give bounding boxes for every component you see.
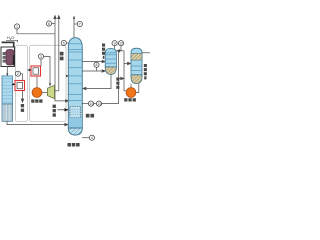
line out right (142, 52, 150, 54)
主冷凝 label blobs + arrow (53, 105, 56, 117)
污氮 label blobs (21, 104, 24, 112)
svg-text:1: 1 (16, 25, 18, 29)
adsorber vessel (6, 50, 14, 66)
expander trapezoid (48, 85, 55, 98)
分馏塔 label blobs (68, 143, 80, 147)
liquid air pump (126, 88, 136, 98)
node 2 circle (15, 71, 22, 80)
gray unit box main (cold box) (30, 45, 67, 121)
regenerator column (left) (2, 76, 13, 121)
node 1 circle (14, 24, 19, 29)
line from box to regenerator top (6, 67, 8, 74)
svg-text:4: 4 (91, 136, 93, 140)
svg-text:10: 10 (119, 42, 123, 46)
粗氩塔II label blobs (144, 64, 147, 79)
svg-text:13: 13 (97, 102, 101, 106)
main condenser dashed box (70, 107, 81, 118)
液空泵 label blobs (124, 98, 136, 101)
svg-text:3: 3 (40, 55, 42, 59)
up arrows lines (products) (54, 16, 69, 103)
回流液 label blobs (116, 78, 119, 89)
crude argon column I (105, 48, 116, 74)
svg-text:14: 14 (89, 102, 93, 106)
膨胀机 label blobs (31, 99, 42, 102)
node 10 + wires (118, 41, 123, 46)
nodes 14 13 line (82, 103, 88, 105)
node 5 circle (61, 40, 69, 45)
下塔 label blobs (86, 114, 94, 118)
purifier label blobs (3, 52, 6, 63)
node 8 wires to crude argon col 1 (82, 60, 105, 72)
feed arrow inside box (13, 55, 15, 63)
粗氩塔I label blobs (102, 44, 105, 59)
svg-text:5: 5 (63, 41, 65, 45)
上塔 label blobs (60, 52, 64, 61)
heat exchanger C (upper red box) (28, 66, 41, 76)
wire from node1 to product line (17, 29, 55, 34)
thick feed line (2, 42, 14, 50)
node 6 circle (46, 21, 55, 26)
gray unit box left (purification section) (16, 45, 28, 121)
return line from col1 bottom to main column (83, 75, 111, 90)
H2O line (6, 40, 18, 42)
node 9 (112, 41, 117, 49)
bottom left feed line into column (7, 121, 68, 126)
svg-text:7: 7 (79, 22, 81, 26)
node 4 circle (82, 137, 89, 139)
purifier box (1, 47, 15, 67)
svg-text:8: 8 (96, 63, 98, 67)
node 3 circle + wires (38, 54, 43, 59)
svg-text:6: 6 (48, 22, 50, 26)
crude argon column II (131, 48, 142, 83)
svg-text:2: 2 (17, 72, 19, 76)
node 7 circle + vent line (73, 16, 83, 39)
main column (fractionating tower) (68, 38, 82, 135)
heat exchanger B (lower red box) (12, 81, 25, 91)
waste nitrogen line (21, 91, 23, 103)
rounded hatched bottom (68, 128, 82, 135)
arrow into column left y76 (66, 75, 69, 77)
expander turbine circle (36, 77, 38, 88)
svg-text:9: 9 (114, 42, 116, 46)
